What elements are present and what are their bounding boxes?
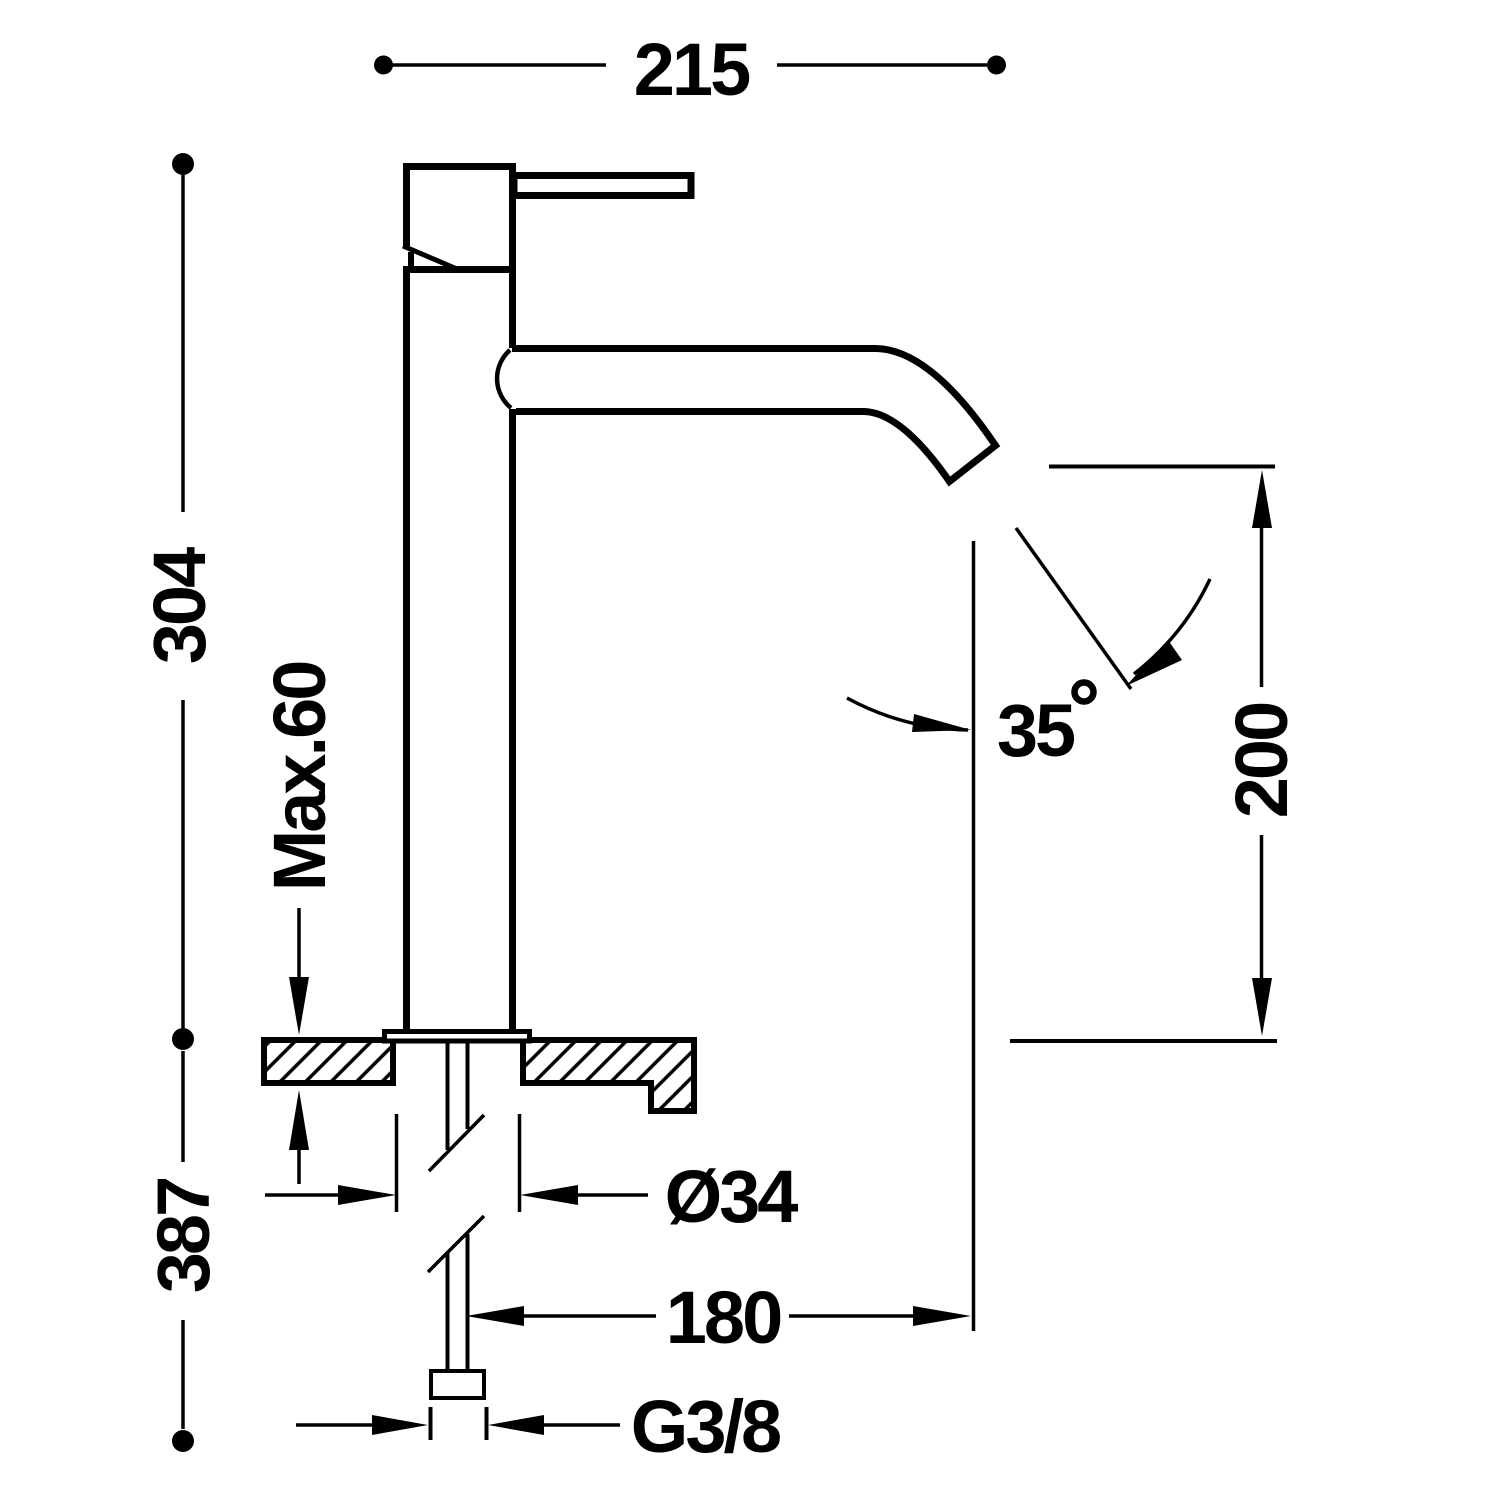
dim O34 right arrow [520, 1185, 578, 1205]
faucet column right edge lower [509, 409, 516, 1031]
dim Max.60 down arrow [289, 977, 309, 1035]
dim 200 upper line [1260, 526, 1264, 687]
dim 215 right dot [987, 56, 1006, 75]
dim 180 left line [522, 1314, 656, 1318]
35 deg diagonal line [1016, 528, 1131, 689]
svg-text:304: 304 [138, 547, 221, 664]
dim 200 up arrow [1252, 470, 1272, 528]
faucet spout root arc [497, 350, 511, 408]
faucet cartridge left notch [408, 252, 414, 271]
dim 215 left dot [374, 56, 393, 75]
35 deg lower arc [847, 698, 968, 730]
dim 215 right line [777, 63, 987, 67]
dim Max.60 lower line [297, 1148, 301, 1184]
dim O34 right extension line [518, 1114, 522, 1212]
faucet column left edge [403, 267, 410, 1031]
35 deg lower arc arrow [912, 714, 971, 732]
dim G3/8 left tail line [296, 1423, 374, 1427]
dim 387 bottom dot [172, 1430, 194, 1452]
dim 215 left line [392, 63, 606, 67]
faucet cartridge outline [407, 167, 513, 349]
supply pipe upper right edge [466, 1043, 470, 1129]
dim G3/8 right tick [485, 1407, 489, 1440]
35 deg upper arc [1134, 579, 1210, 674]
35 deg degree ring [1075, 683, 1094, 702]
ref line horizontal top (200 dim) [1049, 465, 1275, 469]
dim 387 line lower [181, 1320, 185, 1429]
svg-text:215: 215 [634, 28, 750, 111]
faucet base flange [385, 1032, 530, 1042]
svg-text:200: 200 [1220, 703, 1303, 818]
faucet spout outline [512, 349, 996, 482]
faucet handle lever [514, 176, 691, 196]
dim 200 lower line [1260, 835, 1264, 980]
svg-text:387: 387 [142, 1179, 225, 1293]
faucet cartridge diagonal [403, 246, 457, 269]
dim 180 right arrow [913, 1306, 971, 1326]
vertical reference line (35 deg) [972, 541, 976, 1331]
dim 387 line upper [181, 1051, 185, 1162]
svg-text:Max.60: Max.60 [258, 662, 341, 892]
dim 304 line lower [181, 700, 185, 1028]
pipe break diagonal 1 [429, 1115, 484, 1171]
dim 180 left arrow [466, 1306, 524, 1326]
svg-text:35: 35 [997, 689, 1075, 772]
dim O34 left tail line [265, 1193, 340, 1197]
pipe break diagonal 2 [428, 1216, 484, 1272]
dim O34 right tail line [576, 1193, 648, 1197]
35 deg upper arc arrow [1126, 640, 1182, 686]
faucet cartridge base line [403, 266, 516, 273]
dim O34 left extension line [395, 1114, 399, 1212]
dim Max.60 upper line [297, 908, 301, 979]
dim 304 line upper [181, 175, 185, 512]
dim 304/387 middle dot [172, 1028, 194, 1050]
dim 304 top dot [172, 153, 194, 175]
supply pipe upper left edge [446, 1043, 450, 1150]
ref line horizontal bottom (200 dim) [1010, 1039, 1277, 1043]
dim G3/8 right tail line [542, 1423, 620, 1427]
dim Max.60 up arrow [289, 1090, 309, 1150]
pipe nut [431, 1371, 484, 1398]
dim O34 left arrow [338, 1185, 396, 1205]
deck right hatched block [523, 1040, 694, 1111]
svg-text:Ø34: Ø34 [665, 1155, 799, 1238]
supply pipe lower left edge [446, 1253, 450, 1371]
dim G3/8 right arrow [488, 1415, 544, 1435]
dim 180 right line [789, 1314, 915, 1318]
svg-text:G3/8: G3/8 [631, 1385, 780, 1468]
dim G3/8 left arrow [372, 1415, 428, 1435]
deck left hatched block [264, 1040, 393, 1083]
svg-text:180: 180 [666, 1276, 781, 1359]
dim 200 down arrow [1252, 978, 1272, 1036]
supply pipe lower right edge [466, 1234, 470, 1371]
dim G3/8 left tick [429, 1407, 433, 1440]
